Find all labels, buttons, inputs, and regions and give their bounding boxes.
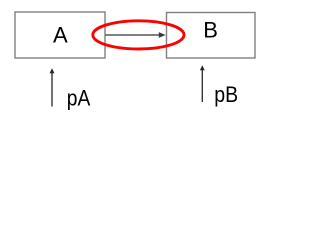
red ellipse highlight [93,21,184,49]
box B [167,13,256,59]
wire arrow A to B [105,34,159,36]
svg-text:pA: pA [67,85,91,110]
arrow pB [201,70,203,103]
arrow pA [51,73,53,107]
svg-text:A: A [53,23,68,48]
svg-text:B: B [203,17,218,42]
svg-text:pB: pB [214,82,238,107]
box A [15,12,105,58]
